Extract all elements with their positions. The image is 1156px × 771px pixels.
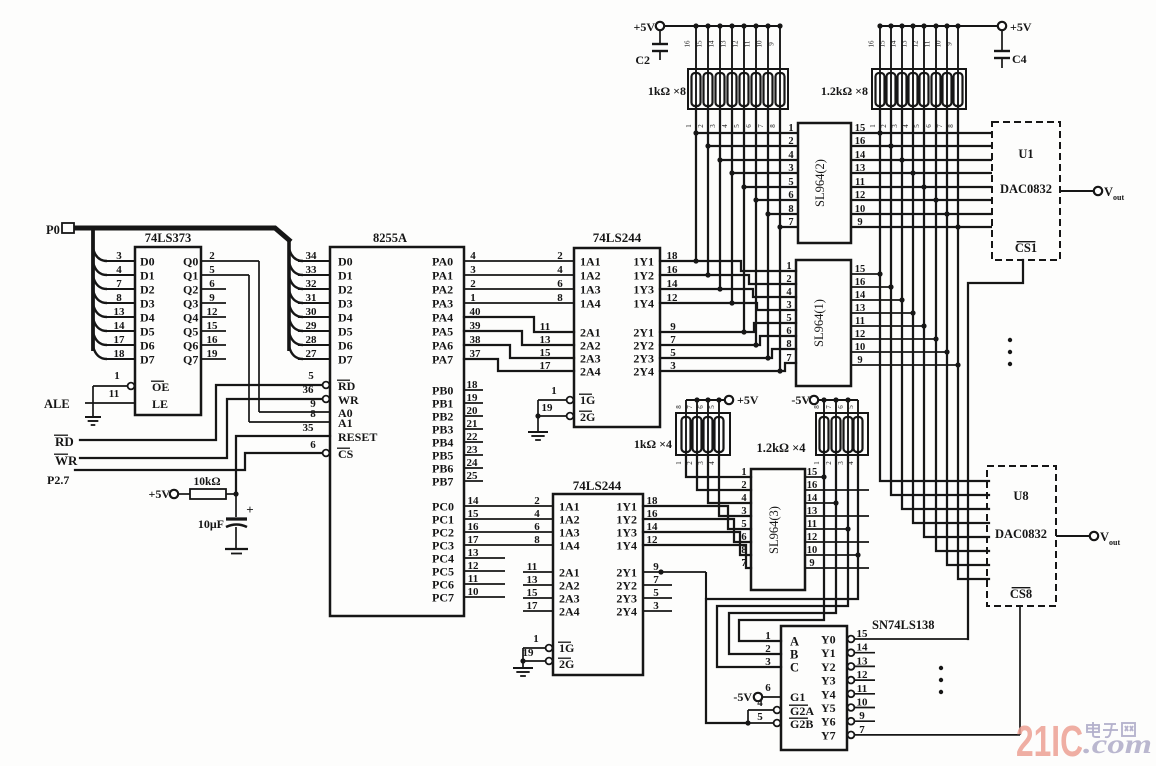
svg-text:PC4: PC4 (432, 552, 454, 566)
svg-text:12: 12 (732, 40, 740, 48)
svg-text:16: 16 (855, 136, 866, 147)
svg-text:6: 6 (209, 278, 215, 290)
svg-text:+5V: +5V (633, 20, 655, 34)
svg-text:6: 6 (534, 521, 540, 533)
svg-text:14: 14 (855, 150, 866, 161)
svg-text:22: 22 (467, 431, 479, 443)
svg-text:16: 16 (647, 508, 659, 520)
svg-text:1: 1 (786, 261, 791, 272)
svg-text:PA1: PA1 (432, 269, 453, 283)
svg-text:9: 9 (653, 561, 659, 573)
svg-text:2A4: 2A4 (559, 605, 580, 619)
svg-text:3: 3 (741, 506, 746, 517)
svg-text:.com: .com (1083, 729, 1152, 759)
svg-text:18: 18 (467, 379, 479, 391)
svg-text:1: 1 (675, 461, 683, 465)
svg-text:5: 5 (708, 405, 716, 409)
svg-text:G2A: G2A (790, 704, 814, 718)
svg-text:10: 10 (468, 586, 480, 598)
svg-text:Q3: Q3 (183, 297, 198, 311)
svg-text:G2B: G2B (790, 717, 813, 731)
svg-text:+5V: +5V (1010, 20, 1032, 34)
svg-text:5: 5 (913, 124, 921, 128)
svg-text:SL964(1): SL964(1) (812, 299, 826, 347)
svg-text:6: 6 (310, 439, 316, 451)
svg-text:Q6: Q6 (183, 339, 198, 353)
svg-text:C4: C4 (1012, 52, 1027, 66)
svg-text:12: 12 (207, 306, 219, 318)
svg-text:PB2: PB2 (432, 410, 453, 424)
svg-text:13: 13 (540, 334, 552, 346)
svg-text:2Y3: 2Y3 (633, 352, 654, 366)
svg-text:C2: C2 (635, 53, 650, 67)
svg-text:6: 6 (697, 405, 705, 409)
svg-text:3: 3 (116, 250, 122, 262)
svg-text:Q2: Q2 (183, 283, 198, 297)
svg-text:23: 23 (467, 444, 479, 456)
svg-text:D7: D7 (338, 353, 353, 367)
svg-text:13: 13 (114, 306, 126, 318)
svg-text:11: 11 (744, 40, 752, 47)
svg-text:Y0: Y0 (821, 633, 836, 647)
svg-text:34: 34 (306, 250, 318, 262)
svg-text:7: 7 (825, 405, 833, 409)
svg-text:D6: D6 (140, 339, 155, 353)
svg-text:PC5: PC5 (432, 565, 454, 579)
svg-text:1: 1 (551, 385, 557, 397)
svg-text:11: 11 (924, 40, 932, 47)
svg-text:D4: D4 (140, 311, 155, 325)
svg-text:PA2: PA2 (432, 283, 453, 297)
svg-text:14: 14 (114, 320, 126, 332)
svg-text:11: 11 (527, 561, 537, 573)
svg-text:Q5: Q5 (183, 325, 198, 339)
svg-text:2A4: 2A4 (580, 365, 601, 379)
svg-text:10kΩ: 10kΩ (193, 476, 220, 488)
svg-text:21IC: 21IC (1016, 717, 1083, 766)
svg-text:Y6: Y6 (821, 715, 836, 729)
svg-text:PC0: PC0 (432, 500, 454, 514)
svg-text:D3: D3 (338, 297, 353, 311)
svg-text:30: 30 (306, 306, 318, 318)
svg-text:4: 4 (741, 493, 747, 504)
svg-text:Q1: Q1 (183, 269, 198, 283)
svg-text:V: V (1104, 185, 1113, 199)
svg-text:1A4: 1A4 (580, 297, 601, 311)
svg-text:6: 6 (765, 682, 771, 694)
svg-text:2: 2 (470, 278, 476, 290)
svg-text:SL964(2): SL964(2) (813, 159, 827, 207)
svg-text:2: 2 (697, 124, 705, 128)
svg-text:7: 7 (116, 278, 122, 290)
svg-text:Y2: Y2 (821, 660, 836, 674)
svg-text:4: 4 (116, 264, 122, 276)
svg-text:16: 16 (855, 277, 866, 288)
svg-text:13: 13 (857, 655, 869, 667)
svg-text:2Y1: 2Y1 (633, 326, 654, 340)
svg-text:7: 7 (686, 405, 694, 409)
svg-text:11: 11 (109, 388, 119, 400)
svg-text:12: 12 (468, 560, 480, 572)
svg-text:PA3: PA3 (432, 297, 453, 311)
svg-text:PC7: PC7 (432, 591, 454, 605)
svg-text:13: 13 (901, 40, 909, 48)
svg-text:C: C (790, 661, 799, 675)
svg-text:2Y4: 2Y4 (616, 605, 637, 619)
svg-text:2: 2 (788, 136, 793, 147)
svg-text:4: 4 (757, 697, 763, 709)
svg-text:2A2: 2A2 (559, 579, 580, 593)
svg-text:G1: G1 (790, 690, 805, 704)
svg-text:RESET: RESET (338, 430, 377, 444)
svg-text:16: 16 (667, 264, 679, 276)
svg-text:12: 12 (667, 292, 679, 304)
svg-text:13: 13 (468, 547, 480, 559)
svg-text:Y1: Y1 (821, 646, 836, 660)
svg-text:1Y4: 1Y4 (616, 539, 637, 553)
svg-text:1Y1: 1Y1 (616, 500, 637, 514)
svg-text:6: 6 (788, 190, 793, 201)
svg-text:Q4: Q4 (183, 311, 198, 325)
svg-text:8: 8 (769, 124, 777, 128)
svg-text:D6: D6 (338, 339, 353, 353)
svg-text:7: 7 (653, 574, 659, 586)
svg-text:2Y4: 2Y4 (633, 365, 654, 379)
svg-text:Y5: Y5 (821, 701, 836, 715)
svg-text:CS8: CS8 (1010, 587, 1032, 601)
svg-text:D5: D5 (140, 325, 155, 339)
svg-text:+: + (246, 502, 253, 517)
svg-text:CS: CS (338, 447, 354, 461)
svg-text:16: 16 (207, 334, 219, 346)
svg-text:7: 7 (786, 353, 791, 364)
svg-text:19: 19 (467, 392, 479, 404)
svg-text:5: 5 (209, 264, 215, 276)
svg-text:PA6: PA6 (432, 339, 453, 353)
svg-text:4: 4 (708, 461, 716, 465)
svg-text:SL964(3): SL964(3) (767, 506, 781, 554)
svg-text:1: 1 (741, 467, 746, 478)
svg-text:9: 9 (946, 42, 954, 46)
svg-text:out: out (1109, 538, 1120, 547)
svg-text:17: 17 (114, 334, 126, 346)
svg-text:14: 14 (647, 521, 659, 533)
svg-text:8255A: 8255A (373, 231, 407, 245)
svg-text:8: 8 (786, 339, 791, 350)
svg-text:SN74LS138: SN74LS138 (872, 618, 935, 632)
svg-text:10: 10 (855, 342, 866, 353)
svg-text:CS1: CS1 (1015, 241, 1037, 255)
svg-text:14: 14 (468, 495, 480, 507)
svg-text:1Y3: 1Y3 (633, 283, 654, 297)
svg-text:1A3: 1A3 (559, 526, 580, 540)
svg-text:13: 13 (720, 40, 728, 48)
svg-text:17: 17 (468, 534, 480, 546)
svg-text:D0: D0 (140, 255, 155, 269)
svg-text:5: 5 (653, 587, 659, 599)
svg-text:8: 8 (788, 204, 793, 215)
svg-text:14: 14 (667, 278, 679, 290)
svg-text:13: 13 (855, 163, 866, 174)
svg-text:DAC0832: DAC0832 (1000, 182, 1052, 196)
svg-text:18: 18 (647, 495, 659, 507)
svg-text:15: 15 (857, 628, 869, 640)
svg-text:12: 12 (855, 190, 866, 201)
svg-text:15: 15 (207, 320, 219, 332)
svg-text:1A2: 1A2 (580, 269, 601, 283)
svg-text:9: 9 (859, 710, 865, 722)
svg-text:4: 4 (534, 508, 540, 520)
svg-text:U1: U1 (1018, 147, 1033, 161)
svg-text:10: 10 (857, 697, 869, 709)
svg-text:6: 6 (837, 405, 845, 409)
svg-text:Y4: Y4 (821, 687, 836, 701)
svg-text:LE: LE (152, 397, 168, 411)
svg-text:8: 8 (675, 405, 683, 409)
svg-text:PB5: PB5 (432, 449, 453, 463)
svg-text:3: 3 (891, 124, 899, 128)
svg-text:5: 5 (786, 313, 791, 324)
svg-text:V: V (1100, 530, 1109, 544)
svg-text:1G: 1G (580, 393, 595, 407)
svg-text:2A1: 2A1 (580, 326, 601, 340)
svg-text:74LS373: 74LS373 (145, 231, 192, 245)
svg-text:D1: D1 (338, 269, 353, 283)
svg-text:1: 1 (470, 292, 476, 304)
svg-text:1G: 1G (559, 641, 574, 655)
svg-text:2: 2 (880, 124, 888, 128)
svg-text:2Y3: 2Y3 (616, 592, 637, 606)
svg-text:9: 9 (857, 217, 862, 228)
svg-text:2: 2 (557, 250, 563, 262)
svg-text:2: 2 (741, 480, 746, 491)
svg-text:Q0: Q0 (183, 255, 198, 269)
svg-text:6: 6 (925, 124, 933, 128)
svg-text:8: 8 (813, 405, 821, 409)
svg-text:RD: RD (55, 434, 74, 449)
svg-text:15: 15 (468, 508, 480, 520)
svg-text:11: 11 (857, 683, 867, 695)
svg-text:PB1: PB1 (432, 397, 453, 411)
svg-text:12: 12 (912, 40, 920, 48)
svg-text:4: 4 (470, 250, 476, 262)
svg-text:35: 35 (303, 422, 315, 434)
svg-text:13: 13 (855, 303, 866, 314)
svg-text:2A2: 2A2 (580, 339, 601, 353)
svg-text:4: 4 (786, 287, 792, 298)
svg-text:5: 5 (670, 347, 676, 359)
svg-text:1: 1 (765, 630, 771, 642)
svg-text:3: 3 (765, 656, 771, 668)
svg-text:4: 4 (721, 124, 729, 128)
svg-text:17: 17 (527, 600, 539, 612)
svg-text:1Y3: 1Y3 (616, 526, 637, 540)
svg-text:11: 11 (540, 321, 550, 333)
svg-text:Y3: Y3 (821, 674, 836, 688)
svg-text:+5V: +5V (148, 487, 170, 501)
svg-text:P2.7: P2.7 (47, 473, 69, 487)
svg-text:1A1: 1A1 (559, 500, 580, 514)
svg-text:17: 17 (540, 360, 552, 372)
svg-text:PC3: PC3 (432, 539, 454, 553)
svg-text:7: 7 (788, 217, 793, 228)
svg-text:15: 15 (696, 40, 704, 48)
svg-text:10: 10 (756, 40, 764, 48)
svg-text:1: 1 (685, 124, 693, 128)
svg-text:14: 14 (855, 290, 866, 301)
svg-text:14: 14 (857, 642, 869, 654)
svg-text:PB7: PB7 (432, 475, 453, 489)
svg-text:12: 12 (855, 329, 866, 340)
svg-text:1kΩ ×4: 1kΩ ×4 (634, 437, 672, 451)
svg-text:1A1: 1A1 (580, 255, 601, 269)
svg-text:1.2kΩ ×4: 1.2kΩ ×4 (756, 441, 806, 455)
svg-text:31: 31 (306, 292, 317, 304)
svg-text:4: 4 (902, 124, 910, 128)
svg-text:-5V: -5V (791, 393, 810, 407)
svg-text:19: 19 (207, 348, 219, 360)
svg-text:PA7: PA7 (432, 353, 453, 367)
svg-text:RD: RD (338, 379, 356, 393)
svg-text:-5V: -5V (733, 690, 752, 704)
svg-text:PA4: PA4 (432, 311, 453, 325)
svg-text:16: 16 (684, 40, 692, 48)
svg-text:12: 12 (857, 669, 869, 681)
svg-text:2Y2: 2Y2 (633, 339, 654, 353)
svg-text:36: 36 (303, 384, 315, 396)
svg-text:74LS244: 74LS244 (593, 230, 642, 245)
svg-text:2G: 2G (559, 657, 574, 671)
svg-text:6: 6 (786, 326, 791, 337)
svg-text:18: 18 (114, 348, 126, 360)
svg-text:3: 3 (653, 600, 659, 612)
svg-text:9: 9 (670, 321, 676, 333)
svg-text:1: 1 (813, 461, 821, 465)
svg-text:4: 4 (557, 264, 563, 276)
svg-text:5: 5 (733, 124, 741, 128)
svg-text:9: 9 (768, 42, 776, 46)
svg-text:1Y4: 1Y4 (633, 297, 654, 311)
svg-text:5: 5 (308, 370, 314, 382)
svg-text:10: 10 (855, 204, 866, 215)
svg-text:9: 9 (209, 292, 215, 304)
svg-text:1: 1 (114, 370, 120, 382)
svg-text:B: B (790, 648, 798, 662)
svg-text:15: 15 (855, 123, 866, 134)
svg-text:14: 14 (890, 40, 898, 48)
svg-text:15: 15 (855, 264, 866, 275)
svg-text:1Y1: 1Y1 (633, 255, 654, 269)
svg-text:24: 24 (467, 457, 479, 469)
svg-text:PA0: PA0 (432, 255, 453, 269)
svg-text:A1: A1 (338, 416, 353, 430)
svg-text:OE: OE (152, 380, 169, 394)
svg-text:16: 16 (468, 521, 480, 533)
svg-text:3: 3 (709, 124, 717, 128)
svg-text:5: 5 (788, 177, 793, 188)
svg-text:U8: U8 (1013, 489, 1028, 503)
svg-text:D3: D3 (140, 297, 155, 311)
svg-text:PC6: PC6 (432, 578, 454, 592)
svg-text:15: 15 (879, 40, 887, 48)
svg-text:PB4: PB4 (432, 436, 453, 450)
svg-text:Y7: Y7 (821, 728, 836, 742)
svg-text:+5V: +5V (737, 393, 759, 407)
svg-text:PC2: PC2 (432, 526, 454, 540)
svg-text:6: 6 (741, 532, 746, 543)
svg-text:D7: D7 (140, 353, 155, 367)
svg-text:3: 3 (788, 163, 793, 174)
svg-text:11: 11 (855, 177, 865, 188)
svg-text:WR: WR (55, 453, 78, 468)
svg-text:3: 3 (470, 264, 476, 276)
svg-text:13: 13 (527, 574, 539, 586)
svg-text:2: 2 (534, 495, 540, 507)
svg-text:D1: D1 (140, 269, 155, 283)
svg-text:3: 3 (697, 461, 705, 465)
svg-text:15: 15 (527, 587, 539, 599)
svg-text:3: 3 (786, 300, 791, 311)
svg-text:ALE: ALE (44, 397, 70, 411)
svg-text:1Y2: 1Y2 (633, 269, 654, 283)
svg-text:1: 1 (788, 123, 793, 134)
svg-text:7: 7 (757, 124, 765, 128)
svg-text:29: 29 (306, 320, 318, 332)
svg-text:19: 19 (542, 402, 554, 414)
svg-text:16: 16 (868, 40, 876, 48)
svg-text:19: 19 (523, 647, 535, 659)
svg-text:7: 7 (859, 724, 865, 736)
svg-text:2: 2 (765, 643, 771, 655)
svg-text:D2: D2 (140, 283, 155, 297)
svg-text:7: 7 (936, 124, 944, 128)
svg-text:8: 8 (116, 292, 122, 304)
svg-text:PC1: PC1 (432, 513, 454, 527)
svg-text:7: 7 (670, 334, 676, 346)
svg-text:6: 6 (557, 278, 563, 290)
svg-text:PB6: PB6 (432, 462, 453, 476)
svg-text:8: 8 (557, 292, 563, 304)
svg-text:5: 5 (757, 711, 763, 723)
svg-text:2G: 2G (580, 410, 595, 424)
svg-text:10μF: 10μF (198, 517, 224, 531)
svg-text:8: 8 (947, 124, 955, 128)
svg-text:18: 18 (667, 250, 679, 262)
svg-text:PB0: PB0 (432, 384, 453, 398)
svg-text:15: 15 (540, 347, 552, 359)
svg-text:14: 14 (708, 40, 716, 48)
svg-text:1: 1 (869, 124, 877, 128)
svg-text:8: 8 (310, 408, 316, 420)
svg-text:DAC0832: DAC0832 (995, 527, 1047, 541)
svg-text:1: 1 (533, 633, 539, 645)
svg-text:D0: D0 (338, 255, 353, 269)
svg-text:1.2kΩ ×8: 1.2kΩ ×8 (821, 84, 868, 98)
svg-text:D5: D5 (338, 325, 353, 339)
svg-text:2: 2 (686, 461, 694, 465)
svg-text:4: 4 (788, 150, 794, 161)
svg-text:2A3: 2A3 (580, 352, 601, 366)
svg-text:A: A (790, 635, 799, 649)
svg-text:28: 28 (306, 334, 318, 346)
svg-text:Q7: Q7 (183, 353, 198, 367)
svg-text:21: 21 (467, 418, 478, 430)
svg-text:12: 12 (647, 534, 659, 546)
svg-text:32: 32 (306, 278, 318, 290)
svg-text:3: 3 (837, 461, 845, 465)
svg-text:1A2: 1A2 (559, 513, 580, 527)
svg-text:8: 8 (741, 545, 746, 556)
